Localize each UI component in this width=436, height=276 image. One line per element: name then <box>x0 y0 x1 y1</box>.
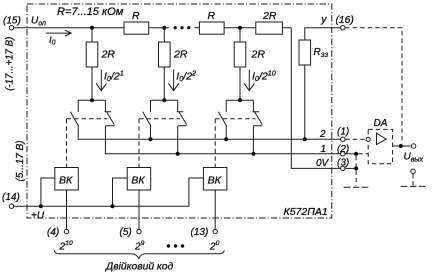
wire cell 2 split <box>151 99 178 101</box>
control line cell 1 <box>67 119 108 168</box>
block BK1 <box>55 168 79 191</box>
svg-text:(16): (16) <box>336 15 354 26</box>
svg-text:ВК: ВК <box>59 175 73 187</box>
wire 2R stub cell 3 <box>239 28 241 101</box>
svg-text:(5): (5) <box>120 227 132 238</box>
pin 16 circle <box>341 26 345 30</box>
pin 4 circle <box>64 229 68 233</box>
arrow I0/2^1 <box>96 70 106 91</box>
svg-text:2: 2 <box>319 129 326 140</box>
switch S3b right <box>253 100 263 154</box>
node R33 on bus 2 <box>303 137 307 141</box>
svg-text:0V: 0V <box>316 158 330 169</box>
wire cell 1 split <box>78 99 105 101</box>
node bus1 cell3 <box>251 152 255 156</box>
terminal Uout bottom circle <box>411 169 415 173</box>
wire dashed bottom terminal to ground <box>412 174 414 186</box>
pin 2 circle <box>341 152 345 156</box>
resistor R2 <box>199 22 224 34</box>
svg-text:(15): (15) <box>3 16 21 27</box>
op-amp U1 triangle <box>377 133 387 144</box>
svg-text:2R: 2R <box>101 49 116 61</box>
wire dashed between ground nodes <box>355 156 357 167</box>
svg-text:R: R <box>208 10 216 22</box>
wire 2R stub cell 2 <box>163 28 165 101</box>
wire BK2 supply riser <box>113 178 128 206</box>
node junction rail 3 <box>238 26 242 30</box>
switch S2b right <box>177 100 187 154</box>
wire R33 top stub to y node <box>305 28 341 40</box>
switch cell 2 node <box>162 98 166 102</box>
resistor 2R cell 2 <box>159 42 171 67</box>
node junction rail 1 <box>90 26 94 30</box>
wire dashed feedback from pin16 to output <box>345 28 402 144</box>
resistor R33 feedback <box>299 40 311 65</box>
control line cell 3 <box>215 119 255 168</box>
node bus1 cell2 <box>176 152 180 156</box>
wire terminator drop to 0V <box>290 28 292 169</box>
pin 3 circle <box>341 166 345 170</box>
svg-text:(1): (1) <box>337 127 349 138</box>
wire dashed node3 to ground <box>355 170 357 186</box>
node bus2 cell3 <box>224 137 228 141</box>
wire dashed pin2 to op-amp <box>358 153 368 155</box>
svg-text:R=7...15 кОм: R=7...15 кОм <box>57 6 124 18</box>
ground symbol right <box>401 185 426 187</box>
control line cell 2 <box>139 119 180 168</box>
svg-text:(14): (14) <box>2 192 20 203</box>
bus 1 wire <box>105 126 340 154</box>
svg-text:DA: DA <box>374 118 388 129</box>
wire BK1 stub to pin 4 <box>66 190 68 229</box>
pin 15 circle <box>9 26 13 30</box>
switch S3a left <box>218 100 226 139</box>
wire cell 3 split <box>226 99 253 101</box>
svg-text:Двійковий код: Двійковий код <box>105 262 174 273</box>
svg-text:2R: 2R <box>251 49 266 61</box>
node BK1 supply <box>39 204 43 208</box>
node junction rail 2 <box>162 26 166 30</box>
arrow I0/2^2 <box>168 70 178 91</box>
arrow I0/2^10 <box>244 70 254 91</box>
pin 14 circle <box>9 204 13 208</box>
pin 1 circle <box>341 137 345 141</box>
svg-text:ВК: ВК <box>131 175 145 187</box>
wire pin3 to ground node <box>345 167 356 169</box>
svg-text:К572ПА1: К572ПА1 <box>284 206 328 218</box>
wire BK2 stub to pin 5 <box>138 190 140 229</box>
pin 5 circle <box>137 229 141 233</box>
IC boundary dash-dot box К572ПА1 <box>27 4 332 218</box>
terminal Uout top circle <box>411 144 415 148</box>
resistor 2R terminator horizontal <box>256 22 283 34</box>
svg-text:(4): (4) <box>47 227 59 238</box>
wire R33 bottom stub to bus 2 <box>304 65 306 139</box>
svg-text:(13): (13) <box>191 227 209 238</box>
brace binary code <box>54 250 224 258</box>
wire op-amp output <box>393 145 412 147</box>
resistor R1 <box>124 22 149 34</box>
svg-text:2R: 2R <box>173 49 188 61</box>
op-amp input terminal circle <box>366 137 370 141</box>
switch S1b right <box>105 100 115 126</box>
wire top rail from pin 15 <box>14 27 169 29</box>
svg-text:(3): (3) <box>337 158 349 169</box>
svg-text:ВК: ВК <box>208 175 222 187</box>
svg-text:1: 1 <box>321 144 327 155</box>
node ground 3 <box>354 166 358 170</box>
pin 13 circle <box>213 229 217 233</box>
block BK3 <box>203 168 227 191</box>
wire BK3 stub to pin 13 <box>214 190 216 229</box>
node bus2 cell2 <box>149 137 153 141</box>
switch S1a left <box>70 100 78 126</box>
switch cell 3 node <box>238 98 242 102</box>
wire BK1 supply riser <box>41 178 55 206</box>
wire 0V row <box>291 167 340 169</box>
ground symbol left <box>344 186 369 188</box>
op-amp DA dashed box <box>368 129 392 163</box>
block BK2 <box>127 168 151 191</box>
resistor 2R cell 3 <box>234 42 246 67</box>
wire +U bus <box>14 178 204 206</box>
wire dashed pin1 to op-amp input <box>345 138 366 140</box>
svg-text:2R: 2R <box>262 10 277 22</box>
wire 2R stub cell 1 <box>91 28 93 101</box>
wire pin2 to ground node <box>345 153 356 155</box>
rail continuation dots <box>174 26 177 29</box>
dots between code pins <box>167 244 170 247</box>
switch cell 1 node <box>90 98 94 102</box>
resistor 2R cell 1 <box>86 42 98 67</box>
svg-text:y: y <box>320 14 327 26</box>
node op-amp output <box>399 144 403 148</box>
node ground 2 <box>354 152 358 156</box>
arrow I0 <box>46 30 71 36</box>
node BK2 supply <box>111 204 115 208</box>
svg-text:R: R <box>132 10 140 22</box>
svg-text:+U: +U <box>31 210 45 221</box>
svg-text:(5...17 В): (5...17 В) <box>15 140 26 181</box>
switch S2a left <box>143 100 151 139</box>
svg-text:(-17...+17 В): (-17...+17 В) <box>4 37 15 91</box>
bus 2 wire <box>78 126 340 140</box>
wire rail continuation after dots <box>194 27 291 29</box>
